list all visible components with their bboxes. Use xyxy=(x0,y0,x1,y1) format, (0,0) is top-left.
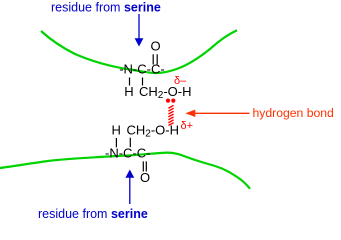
lower molecule: C=O double bond xyxy=(142,161,144,171)
svg-text:residue from serine: residue from serine xyxy=(38,207,148,221)
svg-text:-N-C-C-: -N-C-C- xyxy=(105,145,150,160)
lower enzyme surface green curve xyxy=(0,153,250,189)
lower molecule: H-N bond xyxy=(115,138,117,147)
svg-text:CH2-O-H: CH2-O-H xyxy=(127,123,180,140)
svg-text:-N-C-C-: -N-C-C- xyxy=(119,62,164,77)
hydrogen bond pointer arrow (orange-red) xyxy=(195,112,250,114)
upper molecule: C=O double bond xyxy=(152,54,154,64)
svg-text:H: H xyxy=(124,84,133,99)
upper molecule: C-CH2 bond xyxy=(142,78,144,86)
lower molecule: CH2-C bond xyxy=(129,138,131,148)
hydrogen bond hatched line (red) xyxy=(168,105,173,125)
svg-text:δ+: δ+ xyxy=(181,120,194,132)
upper molecule: N-H bond xyxy=(129,78,131,86)
svg-text:δ–: δ– xyxy=(174,75,187,87)
svg-text:O: O xyxy=(150,38,160,53)
svg-text:hydrogen bond: hydrogen bond xyxy=(253,106,334,120)
lone pair dots (red) xyxy=(166,99,170,103)
svg-text:residue from serine: residue from serine xyxy=(51,1,161,15)
upper enzyme surface green curve xyxy=(41,30,237,73)
svg-text:H: H xyxy=(112,123,121,138)
arrow (top, blue, pointing down) xyxy=(138,14,140,40)
arrow (bottom, blue, pointing up) xyxy=(129,178,131,205)
svg-text:O: O xyxy=(140,170,150,185)
